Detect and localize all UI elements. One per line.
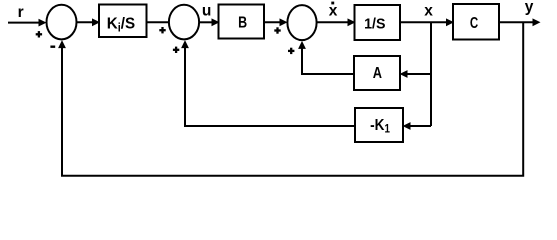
svg-text:1/S: 1/S bbox=[364, 16, 386, 32]
wire B to summing junction S3 bbox=[264, 18, 288, 26]
summing junction S2 bbox=[169, 5, 199, 40]
wire A output to summing junction S3 bbox=[298, 41, 354, 74]
block A (system matrix) bbox=[354, 56, 400, 90]
sign - (S1 feedback input) bbox=[50, 46, 55, 48]
wire C to output y bbox=[499, 18, 541, 26]
sign + (S1 input from r) bbox=[36, 31, 42, 37]
summing junction S3 bbox=[287, 5, 316, 40]
sign + (S3 input from B) bbox=[274, 27, 280, 33]
wire x node branch down to feedback blocks bbox=[430, 22, 432, 126]
wire S2 to block B bbox=[199, 18, 220, 26]
svg-text:C: C bbox=[470, 13, 478, 31]
svg-text:r: r bbox=[18, 4, 24, 21]
wire Ki/S to summing junction S2 bbox=[147, 21, 170, 23]
wire input r to summing junction S1 bbox=[8, 19, 47, 27]
svg-text:A: A bbox=[373, 65, 383, 83]
block 1/S (integrator) bbox=[355, 5, 401, 40]
svg-text:B: B bbox=[238, 14, 247, 32]
wire 1/S to block C (node x) bbox=[400, 18, 454, 26]
wire -K1 output to summing junction S2 bbox=[181, 40, 355, 126]
svg-text:x: x bbox=[329, 3, 338, 20]
block -K1 (state feedback gain) bbox=[355, 108, 403, 142]
block C (output matrix) bbox=[453, 4, 499, 40]
wire output y feedback to summing junction S1 (outer loop) bbox=[58, 23, 523, 176]
wire branch into block -K1 bbox=[403, 122, 432, 130]
wire S1 to block Ki/S bbox=[76, 18, 100, 26]
wire S3 to block 1/S bbox=[316, 18, 355, 26]
sign + (S2 input from Ki/S) bbox=[159, 27, 165, 33]
summing junction S1 bbox=[47, 5, 77, 40]
svg-text:u: u bbox=[202, 3, 211, 20]
svg-text:x: x bbox=[424, 3, 433, 20]
label xdot (state derivative) bbox=[329, 2, 338, 20]
wire branch into block A bbox=[400, 70, 432, 78]
block B bbox=[219, 5, 265, 39]
block Ki/S (integral controller) bbox=[99, 5, 147, 38]
svg-text:Ki/S: Ki/S bbox=[107, 15, 135, 34]
svg-text:y: y bbox=[525, 0, 534, 16]
sign + (S3 feedback from A) bbox=[288, 48, 294, 54]
sign + (S2 feedback from -K1) bbox=[173, 47, 179, 53]
